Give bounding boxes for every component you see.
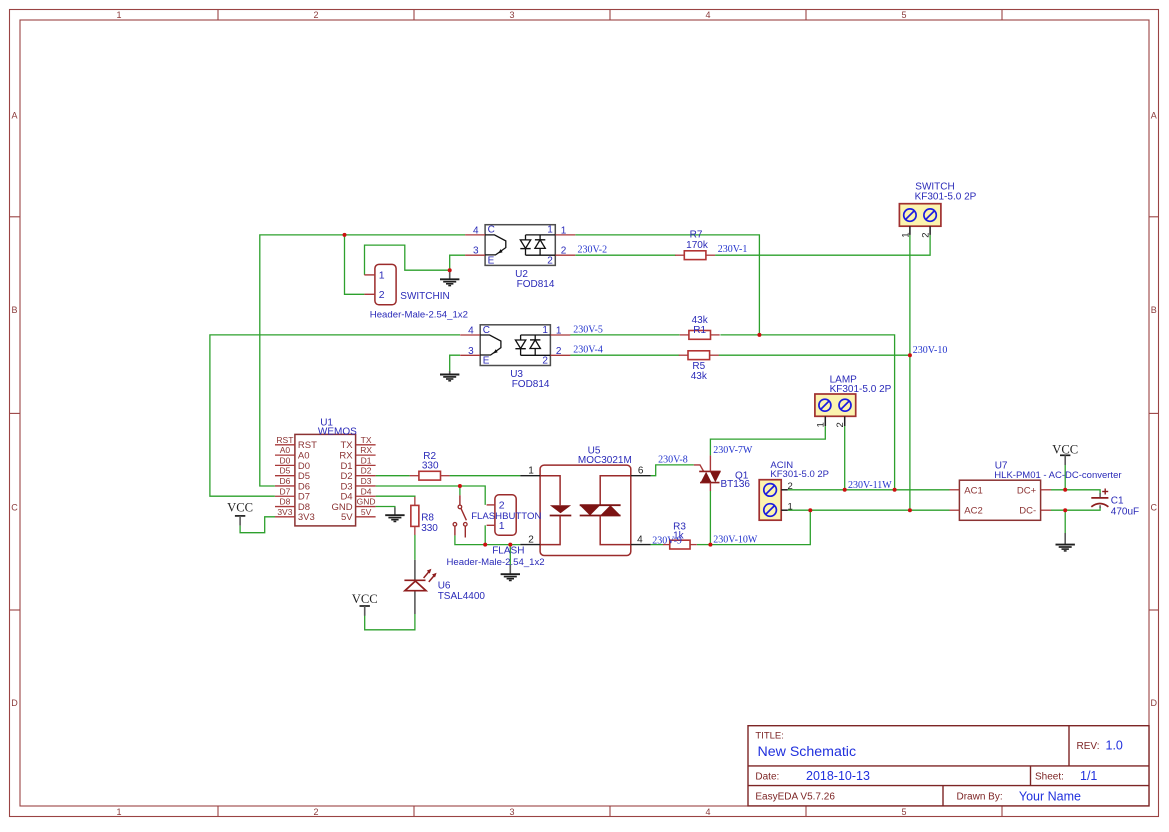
svg-text:REV:: REV: xyxy=(1077,741,1100,752)
svg-text:230V-11W: 230V-11W xyxy=(848,480,892,491)
svg-text:R1: R1 xyxy=(693,325,706,336)
svg-text:D4: D4 xyxy=(361,486,372,496)
svg-text:330: 330 xyxy=(421,523,438,534)
svg-text:2: 2 xyxy=(313,807,318,817)
svg-text:1.0: 1.0 xyxy=(1106,739,1123,753)
svg-text:5: 5 xyxy=(901,807,906,817)
svg-text:2: 2 xyxy=(379,289,385,301)
svg-text:230V-2: 230V-2 xyxy=(578,245,608,256)
svg-text:230V-9: 230V-9 xyxy=(652,535,682,546)
svg-text:230V-10W: 230V-10W xyxy=(713,534,758,545)
svg-text:EasyEDA V5.7.26: EasyEDA V5.7.26 xyxy=(755,792,835,803)
svg-text:WEMOS: WEMOS xyxy=(318,427,357,438)
svg-text:2: 2 xyxy=(788,481,793,492)
svg-text:5V: 5V xyxy=(361,507,372,517)
svg-text:Date:: Date: xyxy=(755,772,779,783)
svg-text:3V3: 3V3 xyxy=(277,507,292,517)
svg-text:E: E xyxy=(483,356,490,367)
svg-text:D3: D3 xyxy=(361,476,372,486)
svg-text:FLASH: FLASH xyxy=(492,546,524,557)
svg-text:170k: 170k xyxy=(686,240,709,251)
svg-text:A0: A0 xyxy=(280,445,291,455)
svg-text:D5: D5 xyxy=(279,466,290,476)
svg-text:D8: D8 xyxy=(279,497,290,507)
svg-text:B: B xyxy=(11,305,17,315)
svg-text:C: C xyxy=(1151,503,1158,513)
svg-text:TSAL4400: TSAL4400 xyxy=(438,591,486,602)
svg-text:D6: D6 xyxy=(279,476,290,486)
svg-text:E: E xyxy=(488,256,495,267)
svg-text:1: 1 xyxy=(547,225,553,236)
svg-text:KF301-5.0 2P: KF301-5.0 2P xyxy=(770,469,829,480)
svg-text:1: 1 xyxy=(116,807,121,817)
svg-text:1: 1 xyxy=(900,232,911,237)
svg-text:FOD814: FOD814 xyxy=(512,379,550,390)
svg-text:4: 4 xyxy=(468,326,474,337)
svg-text:3: 3 xyxy=(509,807,514,817)
svg-text:MOC3021M: MOC3021M xyxy=(578,455,632,466)
svg-text:1: 1 xyxy=(499,520,505,532)
svg-text:2: 2 xyxy=(313,10,318,20)
svg-text:Header-Male-2.54_1x2: Header-Male-2.54_1x2 xyxy=(447,557,545,568)
svg-text:TITLE:: TITLE: xyxy=(755,731,784,742)
svg-text:3V3: 3V3 xyxy=(298,512,315,523)
svg-text:1: 1 xyxy=(542,325,548,336)
svg-text:4: 4 xyxy=(473,225,479,236)
svg-text:VCC: VCC xyxy=(227,501,253,515)
svg-text:330: 330 xyxy=(422,461,439,472)
svg-text:1: 1 xyxy=(561,225,567,236)
svg-text:230V-8: 230V-8 xyxy=(658,455,688,466)
svg-text:5V: 5V xyxy=(341,512,353,523)
svg-text:2: 2 xyxy=(556,346,562,357)
svg-text:RST: RST xyxy=(276,435,293,445)
svg-text:C: C xyxy=(11,503,18,513)
svg-text:AC1: AC1 xyxy=(964,485,982,496)
svg-text:D7: D7 xyxy=(279,486,290,496)
svg-text:470uF: 470uF xyxy=(1111,507,1139,518)
svg-text:D1: D1 xyxy=(361,455,372,465)
svg-text:Drawn By:: Drawn By: xyxy=(957,792,1003,803)
svg-text:D0: D0 xyxy=(279,455,290,465)
svg-text:VCC: VCC xyxy=(352,592,378,606)
svg-text:1: 1 xyxy=(116,10,121,20)
svg-text:KF301-5.0 2P: KF301-5.0 2P xyxy=(915,192,977,203)
svg-text:D: D xyxy=(11,698,18,708)
svg-text:AC2: AC2 xyxy=(964,506,982,517)
svg-text:KF301-5.0 2P: KF301-5.0 2P xyxy=(830,384,892,395)
svg-text:VCC: VCC xyxy=(1052,442,1078,456)
svg-text:TX: TX xyxy=(361,435,372,445)
svg-text:230V-10: 230V-10 xyxy=(913,345,948,356)
svg-text:2018-10-13: 2018-10-13 xyxy=(806,769,870,783)
svg-text:3: 3 xyxy=(509,10,514,20)
svg-text:4: 4 xyxy=(705,10,710,20)
svg-text:1: 1 xyxy=(528,466,534,477)
svg-text:2: 2 xyxy=(528,534,534,545)
svg-text:Sheet:: Sheet: xyxy=(1035,772,1064,783)
svg-text:C: C xyxy=(483,325,490,336)
svg-text:D: D xyxy=(1151,698,1158,708)
svg-text:Header-Male-2.54_1x2: Header-Male-2.54_1x2 xyxy=(370,310,468,321)
svg-text:FLASHBUTTON: FLASHBUTTON xyxy=(471,511,541,522)
svg-text:4: 4 xyxy=(705,807,710,817)
svg-text:1: 1 xyxy=(816,422,827,427)
svg-text:4: 4 xyxy=(637,534,643,545)
svg-text:GND: GND xyxy=(357,497,376,507)
svg-text:3: 3 xyxy=(468,346,474,357)
svg-text:3: 3 xyxy=(473,246,479,257)
svg-text:U6: U6 xyxy=(438,580,451,591)
svg-text:1/1: 1/1 xyxy=(1080,769,1097,783)
svg-text:230V-4: 230V-4 xyxy=(573,345,603,356)
svg-text:230V-5: 230V-5 xyxy=(573,324,603,335)
svg-text:RX: RX xyxy=(360,445,372,455)
svg-text:A: A xyxy=(1151,111,1157,121)
svg-text:43k: 43k xyxy=(691,371,708,382)
svg-text:Your Name: Your Name xyxy=(1019,790,1081,804)
svg-text:6: 6 xyxy=(638,466,644,477)
svg-text:5: 5 xyxy=(901,10,906,20)
svg-text:2: 2 xyxy=(499,500,505,512)
svg-text:1: 1 xyxy=(556,326,562,337)
svg-text:C1: C1 xyxy=(1111,495,1124,506)
svg-text:2: 2 xyxy=(542,356,548,367)
svg-text:BT136: BT136 xyxy=(721,479,751,490)
svg-text:1: 1 xyxy=(379,270,385,282)
svg-text:230V-7W: 230V-7W xyxy=(713,445,753,456)
svg-text:2: 2 xyxy=(835,422,846,427)
svg-text:2: 2 xyxy=(547,256,553,267)
svg-text:DC+: DC+ xyxy=(1017,485,1037,496)
svg-text:D2: D2 xyxy=(361,466,372,476)
svg-text:C: C xyxy=(488,225,495,236)
svg-text:B: B xyxy=(1151,305,1157,315)
svg-text:R7: R7 xyxy=(690,229,703,240)
svg-text:2: 2 xyxy=(921,232,932,237)
svg-text:230V-1: 230V-1 xyxy=(718,244,748,255)
svg-text:SWITCHIN: SWITCHIN xyxy=(400,291,449,302)
svg-text:DC-: DC- xyxy=(1019,506,1036,517)
svg-text:2: 2 xyxy=(561,246,567,257)
svg-text:FOD814: FOD814 xyxy=(517,279,555,290)
svg-text:A: A xyxy=(11,111,17,121)
svg-text:HLK-PM01 - AC-DC-converter: HLK-PM01 - AC-DC-converter xyxy=(994,470,1121,481)
svg-text:1: 1 xyxy=(788,501,793,512)
svg-text:New Schematic: New Schematic xyxy=(758,744,857,760)
